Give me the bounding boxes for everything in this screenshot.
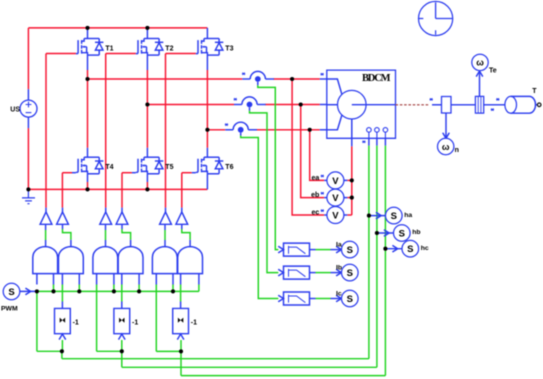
wire T4 drain stub bbox=[87, 148, 89, 157]
wire ha net drop from bus dot bbox=[36, 291, 38, 351]
transistor T5 bbox=[136, 157, 174, 174]
current sensor phase C bbox=[225, 122, 257, 132]
wire G1-B1 straight connector bbox=[45, 224, 47, 247]
svg-text:S: S bbox=[347, 294, 353, 305]
label hc bbox=[421, 245, 429, 252]
wire voltmeter ea right stub bbox=[347, 179, 352, 181]
wire hb feeder segment bbox=[97, 351, 377, 367]
wire G5-B5 straight connector bbox=[164, 224, 166, 247]
wire K2 output to gate4 bbox=[121, 285, 123, 309]
wire motor neutral to voltmeters bbox=[351, 146, 353, 215]
wire gate6 right stub to bus corner bbox=[198, 285, 200, 292]
AND gate G1 bbox=[33, 247, 58, 274]
wire T5 drain stub bbox=[146, 148, 148, 157]
voltage source US bbox=[10, 100, 37, 117]
wire T5 gate vertical bbox=[121, 173, 123, 208]
gain block K2 bbox=[114, 308, 130, 339]
svg-text:-1: -1 bbox=[73, 319, 79, 326]
wire BDCM neutral stub bbox=[351, 138, 353, 146]
wire phase A blue stub into BDCM bbox=[320, 78, 327, 80]
wire PWM bus bbox=[37, 290, 199, 292]
wire shaft between sensors bbox=[451, 104, 475, 106]
speed sensor block bbox=[442, 97, 452, 114]
wire voltmeter eb left stub bbox=[324, 197, 327, 199]
svg-text:S: S bbox=[347, 268, 353, 279]
wire phase C row bbox=[207, 129, 319, 131]
wire T2 gate lead bbox=[106, 53, 136, 55]
label Ib bbox=[336, 264, 342, 271]
svg-text:V: V bbox=[332, 211, 339, 222]
wire voltmeter ec left stub bbox=[324, 214, 327, 216]
speed probe n bbox=[438, 138, 459, 154]
svg-text:S: S bbox=[391, 211, 397, 222]
torque probe Te bbox=[472, 54, 497, 74]
wire leg2 T2-T5 midpoint bbox=[146, 70, 148, 148]
wire T5 source to rail bbox=[146, 182, 148, 189]
wire T6 gate vertical bbox=[181, 173, 183, 208]
wire K2 input bbox=[121, 340, 123, 351]
wire T5 source stub bbox=[146, 174, 148, 182]
wire T2 gate vertical bbox=[105, 54, 107, 208]
wire AND input blue stubs bbox=[37, 274, 199, 285]
svg-text:S: S bbox=[407, 244, 413, 255]
wire T6 gate lead bbox=[182, 172, 196, 174]
wire G6-B6 jog connector bbox=[182, 224, 190, 247]
wire ha feeder segment bbox=[37, 351, 369, 358]
svg-text:ea: ea bbox=[312, 175, 320, 182]
svg-text:ec: ec bbox=[312, 209, 320, 216]
wire K3 input bbox=[180, 340, 182, 351]
wire K3 output to gate6 bbox=[180, 285, 182, 309]
wire sensor C tail bbox=[241, 133, 279, 299]
svg-text:Ic: Ic bbox=[336, 290, 342, 297]
wire T6 source stub bbox=[206, 174, 208, 190]
gate-drive buffer B2 bbox=[57, 212, 69, 224]
svg-text:US: US bbox=[10, 107, 20, 114]
wire T1 gate vertical bbox=[45, 54, 47, 208]
svg-text:BDCM: BDCM bbox=[362, 73, 391, 84]
label ha bbox=[404, 212, 412, 219]
wire voltmeter right blue stubs bbox=[344, 180, 347, 215]
wire gate3 left input drop bbox=[96, 285, 98, 352]
torque sensor block bbox=[475, 96, 483, 113]
transistor T4 bbox=[76, 157, 114, 174]
wire tap phase C to voltmeter ea bbox=[310, 130, 325, 181]
wire leg1 T1-T4 midpoint bbox=[87, 70, 89, 148]
gate-drive buffer B3 bbox=[100, 212, 112, 224]
wire G2-B2 jog connector bbox=[63, 224, 71, 247]
wire phase B row bbox=[147, 104, 319, 106]
wire voltmeter eb right stub bbox=[347, 197, 352, 199]
wire US negative to ground rail bbox=[27, 128, 29, 189]
wire hall ha vertical bbox=[368, 138, 370, 358]
svg-text:T5: T5 bbox=[165, 164, 173, 171]
transistor T1 bbox=[76, 39, 114, 56]
label K3 gain bbox=[191, 319, 197, 326]
gate-drive buffer B6 bbox=[176, 212, 188, 224]
wire shaft from BDCM bbox=[396, 104, 430, 106]
svg-text:V: V bbox=[332, 193, 339, 204]
wire DC+ top bus bbox=[28, 27, 207, 29]
svg-text:V: V bbox=[332, 176, 339, 187]
svg-text:Ib: Ib bbox=[336, 264, 342, 271]
wire filter Ia output bbox=[310, 246, 342, 253]
wire gate5 left input drop bbox=[155, 285, 157, 352]
wire hall hc vertical bbox=[384, 138, 386, 375]
wire T1 gate lead bbox=[46, 53, 76, 55]
label K1 gain bbox=[73, 319, 79, 326]
wire DC- bottom rail bbox=[28, 188, 207, 190]
wire phase C blue stub into BDCM bbox=[320, 129, 327, 131]
wire T2 drain stub bbox=[146, 28, 148, 39]
wire tap phase B to voltmeter eb bbox=[301, 105, 325, 198]
wire T1 source stub bbox=[87, 55, 89, 70]
wire T1 drain stub bbox=[87, 28, 89, 39]
svg-text:T1: T1 bbox=[105, 45, 113, 52]
svg-text:-1: -1 bbox=[132, 319, 138, 326]
probe hb bbox=[394, 225, 411, 242]
probe hc bbox=[402, 240, 419, 257]
svg-text:hb: hb bbox=[412, 229, 420, 236]
wire filter Ic output bbox=[310, 295, 342, 302]
source PWM bbox=[1, 283, 20, 312]
wire G4-B4 jog connector bbox=[122, 224, 131, 247]
wire sensor B tail bbox=[250, 107, 279, 272]
wire hb probe arrow bbox=[377, 230, 394, 237]
wire PWM arrow bbox=[20, 288, 37, 295]
wire T3 source stub bbox=[206, 55, 208, 70]
wire sensor A tail bbox=[258, 82, 279, 250]
mechanical load TL bbox=[505, 88, 541, 113]
transistor T3 bbox=[196, 39, 234, 56]
svg-text:T3: T3 bbox=[225, 45, 233, 52]
svg-text:T2: T2 bbox=[165, 45, 173, 52]
motor BDCM U1 bbox=[327, 70, 396, 138]
wire AND input green stubs to PWM bus bbox=[54, 285, 174, 292]
svg-text:ω: ω bbox=[476, 58, 484, 68]
wire tap phase A to voltmeter ec bbox=[292, 79, 324, 215]
svg-text:T4: T4 bbox=[105, 164, 113, 171]
AND gate G5 bbox=[152, 247, 177, 274]
filter block F2 bbox=[278, 266, 309, 279]
svg-text:Te: Te bbox=[489, 68, 497, 75]
gate-drive buffer B4 bbox=[116, 212, 128, 224]
wire hc probe arrow bbox=[385, 245, 402, 252]
wire DC+ left drop to source US bbox=[27, 28, 29, 89]
wire T3 gate lead bbox=[166, 53, 196, 55]
wire K1 output to gate2 bbox=[61, 285, 63, 309]
filter block F3 bbox=[278, 292, 309, 305]
label K2 gain bbox=[132, 319, 138, 326]
svg-text:eb: eb bbox=[311, 192, 319, 199]
label Ia bbox=[336, 241, 342, 248]
wire voltmeter ec right stub bbox=[347, 214, 352, 216]
wire T5 gate lead bbox=[122, 172, 136, 174]
AND gate G2 bbox=[59, 247, 84, 274]
svg-text:Ia: Ia bbox=[336, 241, 342, 248]
clock symbol bbox=[419, 1, 453, 35]
wire shaft to load bbox=[484, 104, 505, 106]
label hb bbox=[412, 229, 420, 236]
probe ha bbox=[386, 207, 403, 224]
wire filter Ib output bbox=[310, 269, 342, 276]
svg-text:S: S bbox=[347, 245, 353, 256]
current sensor phase A bbox=[242, 71, 274, 82]
voltmeter ec bbox=[312, 207, 344, 224]
svg-text:-1: -1 bbox=[191, 319, 197, 326]
wire ha probe arrow bbox=[369, 212, 386, 219]
wire T3 drain stub bbox=[206, 28, 208, 39]
svg-text:S: S bbox=[399, 228, 405, 239]
probe Ia bbox=[342, 241, 359, 258]
wire hall hb vertical bbox=[376, 138, 378, 367]
wire speed probe drop bbox=[443, 113, 450, 138]
wire leg3 T3-T6 midpoint bbox=[206, 70, 208, 148]
svg-text:n: n bbox=[455, 147, 459, 154]
wire T2 source stub bbox=[146, 55, 148, 70]
probe Ic bbox=[342, 290, 359, 307]
svg-text:ha: ha bbox=[404, 212, 412, 219]
svg-text:T: T bbox=[532, 88, 537, 95]
voltmeter ea bbox=[312, 172, 344, 189]
gate-drive buffer B5 bbox=[160, 212, 172, 224]
gain block K3 bbox=[173, 308, 189, 339]
current sensor phase B bbox=[234, 97, 266, 108]
svg-text:T6: T6 bbox=[225, 164, 233, 171]
label Ic bbox=[336, 290, 342, 297]
gain block K1 bbox=[55, 308, 71, 339]
probe Ib bbox=[342, 264, 359, 281]
svg-text:S: S bbox=[8, 287, 14, 298]
wire US top stub bbox=[27, 89, 29, 100]
filter block F1 bbox=[278, 243, 309, 256]
transistor T6 bbox=[196, 157, 234, 174]
svg-text:hc: hc bbox=[421, 245, 429, 252]
ground bbox=[22, 189, 35, 203]
wire phase B blue stub into BDCM bbox=[320, 104, 327, 106]
gate-drive buffer B1 bbox=[40, 212, 52, 224]
transistor T2 bbox=[136, 39, 174, 56]
wire buffer blue tips bbox=[46, 208, 182, 212]
AND gate G4 bbox=[118, 247, 143, 274]
wire voltmeter ea left stub bbox=[324, 179, 327, 181]
wire T4 source stub bbox=[87, 174, 89, 182]
svg-text:PWM: PWM bbox=[1, 305, 18, 312]
polarity markers bbox=[320, 73, 499, 143]
voltmeter eb bbox=[311, 189, 344, 206]
wire shaft stub bbox=[432, 104, 442, 106]
wire hc feeder segment bbox=[156, 351, 385, 375]
wire T3 gate vertical bbox=[165, 54, 167, 208]
wire T4 gate lead bbox=[62, 172, 76, 174]
wire phase A row bbox=[88, 78, 320, 80]
wire T4 source to rail bbox=[87, 182, 89, 189]
wire G3-B3 straight connector bbox=[105, 224, 107, 247]
wire US bottom stub bbox=[27, 117, 29, 128]
wire torque probe rise bbox=[476, 71, 483, 96]
AND gate G3 bbox=[93, 247, 118, 274]
wire T6 drain stub bbox=[206, 148, 208, 157]
svg-text:ω: ω bbox=[442, 142, 450, 152]
wire T4 gate vertical bbox=[61, 173, 63, 208]
wire K1 input bbox=[61, 340, 63, 351]
AND gate G6 bbox=[178, 247, 203, 274]
